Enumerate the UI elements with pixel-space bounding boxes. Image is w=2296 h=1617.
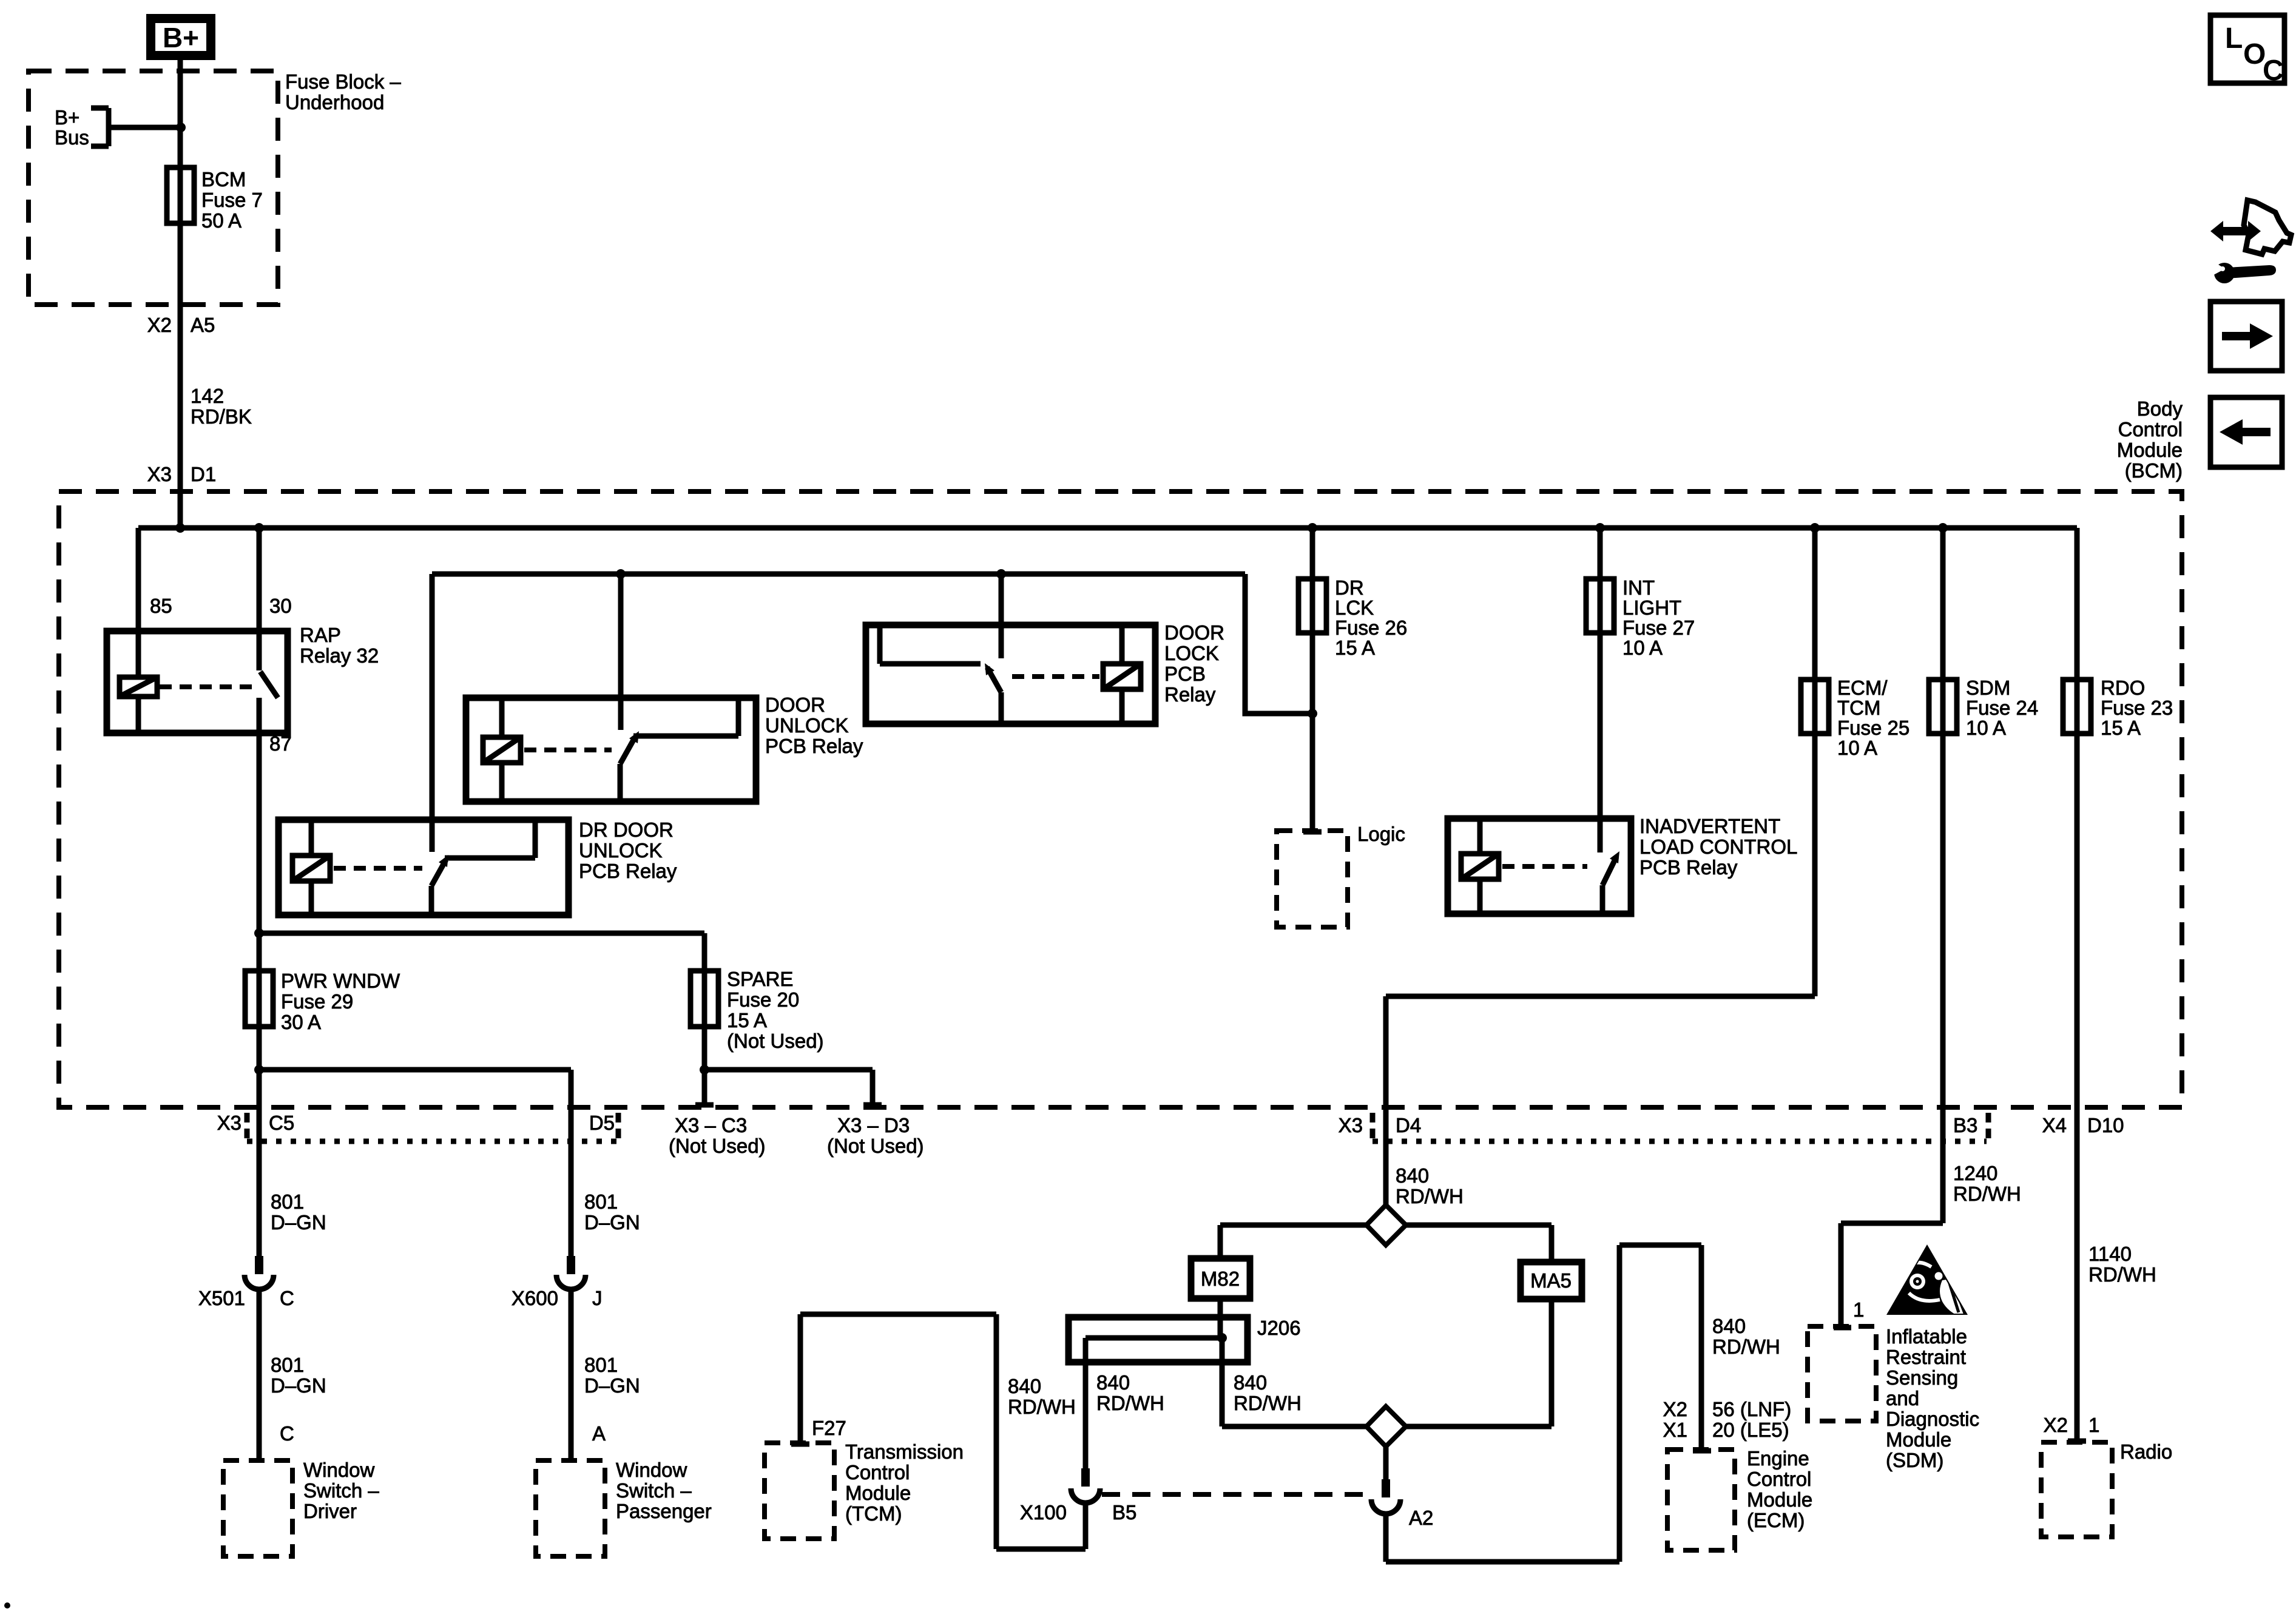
svg-text:PWR WNDW: PWR WNDW bbox=[281, 970, 400, 992]
svg-text:X1: X1 bbox=[1663, 1419, 1687, 1441]
svg-text:15 A: 15 A bbox=[727, 1009, 767, 1031]
svg-text:(Not Used): (Not Used) bbox=[827, 1135, 924, 1157]
svg-text:Passenger: Passenger bbox=[616, 1500, 712, 1522]
svg-text:PCB Relay: PCB Relay bbox=[765, 735, 863, 757]
svg-text:840: 840 bbox=[1712, 1315, 1746, 1337]
svg-text:801: 801 bbox=[271, 1354, 304, 1376]
svg-text:840: 840 bbox=[1234, 1371, 1267, 1394]
svg-text:F27: F27 bbox=[812, 1417, 846, 1439]
svg-text:15 A: 15 A bbox=[2101, 717, 2141, 739]
svg-text:Bus: Bus bbox=[55, 126, 89, 149]
svg-text:A2: A2 bbox=[1409, 1507, 1433, 1529]
svg-text:J206: J206 bbox=[1257, 1317, 1301, 1339]
svg-text:15 A: 15 A bbox=[1335, 636, 1375, 659]
svg-text:Control: Control bbox=[2118, 418, 2183, 441]
svg-text:(Not Used): (Not Used) bbox=[669, 1135, 766, 1157]
svg-text:1: 1 bbox=[2088, 1414, 2099, 1436]
svg-text:Window: Window bbox=[303, 1459, 375, 1481]
svg-text:Module: Module bbox=[1747, 1488, 1812, 1511]
svg-text:X3 – D3: X3 – D3 bbox=[837, 1114, 910, 1136]
svg-text:RD/WH: RD/WH bbox=[1396, 1185, 1464, 1207]
svg-text:INADVERTENT: INADVERTENT bbox=[1639, 815, 1780, 837]
svg-text:MA5: MA5 bbox=[1530, 1269, 1572, 1292]
svg-text:RAP: RAP bbox=[300, 624, 341, 646]
svg-text:D5: D5 bbox=[589, 1112, 615, 1134]
svg-text:C: C bbox=[280, 1422, 294, 1445]
svg-text:Switch –: Switch – bbox=[616, 1479, 692, 1502]
svg-text:C: C bbox=[280, 1287, 294, 1309]
svg-text:LCK: LCK bbox=[1335, 596, 1374, 619]
svg-text:Fuse 24: Fuse 24 bbox=[1966, 697, 2038, 719]
svg-text:D–GN: D–GN bbox=[584, 1211, 640, 1234]
svg-text:Driver: Driver bbox=[303, 1500, 357, 1522]
svg-text:X600: X600 bbox=[512, 1287, 558, 1309]
svg-text:RD/WH: RD/WH bbox=[2088, 1263, 2156, 1286]
svg-text:Fuse 26: Fuse 26 bbox=[1335, 616, 1407, 639]
svg-text:Fuse 7: Fuse 7 bbox=[201, 189, 263, 211]
svg-text:Control: Control bbox=[1747, 1468, 1811, 1490]
svg-text:C5: C5 bbox=[269, 1112, 294, 1134]
svg-text:PCB: PCB bbox=[1164, 663, 1206, 685]
svg-text:B3: B3 bbox=[1953, 1114, 1977, 1136]
svg-text:M82: M82 bbox=[1201, 1268, 1240, 1290]
svg-text:BCM: BCM bbox=[201, 168, 246, 191]
svg-text:INT: INT bbox=[1622, 576, 1655, 599]
svg-text:30: 30 bbox=[269, 595, 292, 617]
svg-text:Window: Window bbox=[616, 1459, 687, 1481]
svg-text:Inflatable: Inflatable bbox=[1886, 1325, 1967, 1348]
svg-text:56 (LNF): 56 (LNF) bbox=[1712, 1398, 1791, 1420]
svg-text:D–GN: D–GN bbox=[271, 1374, 326, 1397]
svg-text:X3: X3 bbox=[1339, 1114, 1363, 1136]
svg-text:D–GN: D–GN bbox=[584, 1374, 640, 1397]
svg-text:Fuse 27: Fuse 27 bbox=[1622, 616, 1695, 639]
svg-text:142: 142 bbox=[191, 385, 224, 407]
svg-text:Relay 32: Relay 32 bbox=[300, 644, 379, 667]
svg-text:840: 840 bbox=[1396, 1164, 1429, 1187]
svg-text:801: 801 bbox=[271, 1190, 304, 1213]
svg-text:Fuse 29: Fuse 29 bbox=[281, 990, 353, 1013]
svg-text:A: A bbox=[592, 1422, 606, 1445]
svg-text:J: J bbox=[592, 1287, 603, 1309]
svg-text:Fuse 20: Fuse 20 bbox=[727, 988, 799, 1011]
svg-text:(BCM): (BCM) bbox=[2125, 459, 2183, 482]
svg-text:Diagnostic: Diagnostic bbox=[1886, 1408, 1979, 1430]
svg-text:Fuse 23: Fuse 23 bbox=[2101, 697, 2173, 719]
svg-text:85: 85 bbox=[150, 595, 172, 617]
svg-text:Logic: Logic bbox=[1357, 823, 1405, 845]
svg-text:10 A: 10 A bbox=[1837, 737, 1877, 759]
svg-text:L: L bbox=[2225, 22, 2243, 55]
svg-text:DOOR: DOOR bbox=[765, 694, 825, 716]
svg-text:801: 801 bbox=[584, 1354, 618, 1376]
svg-text:Transmission: Transmission bbox=[845, 1440, 964, 1463]
svg-text:840: 840 bbox=[1008, 1375, 1041, 1397]
svg-text:X2: X2 bbox=[1663, 1398, 1687, 1420]
svg-text:87: 87 bbox=[269, 732, 292, 755]
svg-text:B+: B+ bbox=[163, 22, 199, 53]
svg-text:1140: 1140 bbox=[2088, 1243, 2132, 1265]
svg-text:X4: X4 bbox=[2042, 1114, 2067, 1136]
svg-text:Fuse 25: Fuse 25 bbox=[1837, 717, 1909, 739]
svg-text:D1: D1 bbox=[191, 463, 216, 485]
svg-text:Sensing: Sensing bbox=[1886, 1366, 1958, 1389]
svg-text:X3: X3 bbox=[217, 1112, 241, 1134]
svg-text:(SDM): (SDM) bbox=[1886, 1449, 1943, 1471]
svg-text:RDO: RDO bbox=[2101, 677, 2145, 699]
svg-text:X2: X2 bbox=[2044, 1414, 2068, 1436]
svg-text:D10: D10 bbox=[2087, 1114, 2124, 1136]
svg-text:RD/BK: RD/BK bbox=[191, 405, 252, 428]
svg-text:10 A: 10 A bbox=[1622, 636, 1663, 659]
svg-text:RD/WH: RD/WH bbox=[1712, 1335, 1780, 1358]
svg-text:C: C bbox=[2263, 55, 2284, 87]
svg-text:(Not Used): (Not Used) bbox=[727, 1030, 824, 1052]
svg-text:X501: X501 bbox=[198, 1287, 245, 1309]
svg-text:SDM: SDM bbox=[1966, 677, 2010, 699]
svg-text:LIGHT: LIGHT bbox=[1622, 596, 1681, 619]
svg-text:1: 1 bbox=[1853, 1298, 1864, 1321]
svg-text:Switch –: Switch – bbox=[303, 1479, 379, 1502]
svg-text:Control: Control bbox=[845, 1461, 910, 1484]
svg-text:LOCK: LOCK bbox=[1164, 642, 1219, 664]
svg-text:RD/WH: RD/WH bbox=[1234, 1392, 1302, 1414]
svg-text:Module: Module bbox=[1886, 1428, 1951, 1451]
svg-text:Body: Body bbox=[2137, 397, 2183, 420]
svg-text:Module: Module bbox=[2117, 439, 2183, 461]
svg-text:Underhood: Underhood bbox=[285, 91, 384, 113]
svg-text:801: 801 bbox=[584, 1190, 618, 1213]
svg-text:X3 – C3: X3 – C3 bbox=[675, 1114, 747, 1136]
svg-text:DR DOOR: DR DOOR bbox=[579, 819, 674, 841]
svg-text:X3: X3 bbox=[147, 463, 172, 485]
svg-text:SPARE: SPARE bbox=[727, 968, 793, 990]
svg-text:X100: X100 bbox=[1020, 1501, 1067, 1524]
svg-text:Engine: Engine bbox=[1747, 1447, 1809, 1470]
svg-text:Module: Module bbox=[845, 1482, 911, 1504]
svg-text:Restraint: Restraint bbox=[1886, 1346, 1966, 1368]
svg-text:10 A: 10 A bbox=[1966, 717, 2006, 739]
svg-text:30 A: 30 A bbox=[281, 1011, 321, 1033]
svg-text:840: 840 bbox=[1096, 1371, 1130, 1394]
svg-text:RD/WH: RD/WH bbox=[1953, 1183, 2021, 1205]
svg-text:DR: DR bbox=[1335, 576, 1364, 599]
svg-text:Relay: Relay bbox=[1164, 683, 1216, 706]
svg-text:B+: B+ bbox=[55, 106, 79, 129]
svg-text:RD/WH: RD/WH bbox=[1096, 1392, 1164, 1414]
svg-text:1240: 1240 bbox=[1953, 1162, 1997, 1184]
svg-text:A5: A5 bbox=[191, 314, 215, 336]
svg-text:ECM/: ECM/ bbox=[1837, 677, 1888, 699]
svg-text:and: and bbox=[1886, 1387, 1919, 1409]
svg-text:B5: B5 bbox=[1112, 1501, 1136, 1524]
svg-text:DOOR: DOOR bbox=[1164, 621, 1224, 644]
svg-text:(ECM): (ECM) bbox=[1747, 1509, 1805, 1531]
svg-text:Radio: Radio bbox=[2120, 1440, 2172, 1463]
svg-text:PCB Relay: PCB Relay bbox=[579, 860, 677, 882]
svg-text:X2: X2 bbox=[147, 314, 172, 336]
svg-text:(TCM): (TCM) bbox=[845, 1502, 902, 1525]
svg-text:Fuse Block –: Fuse Block – bbox=[285, 70, 401, 93]
svg-text:D–GN: D–GN bbox=[271, 1211, 326, 1234]
svg-text:UNLOCK: UNLOCK bbox=[765, 714, 849, 737]
svg-text:UNLOCK: UNLOCK bbox=[579, 839, 663, 862]
svg-text:D4: D4 bbox=[1396, 1114, 1421, 1136]
svg-text:LOAD CONTROL: LOAD CONTROL bbox=[1639, 836, 1797, 858]
svg-text:50 A: 50 A bbox=[201, 209, 241, 232]
svg-text:PCB Relay: PCB Relay bbox=[1639, 856, 1738, 879]
svg-text:20 (LE5): 20 (LE5) bbox=[1712, 1419, 1789, 1441]
svg-text:TCM: TCM bbox=[1837, 697, 1880, 719]
svg-text:RD/WH: RD/WH bbox=[1008, 1396, 1076, 1418]
